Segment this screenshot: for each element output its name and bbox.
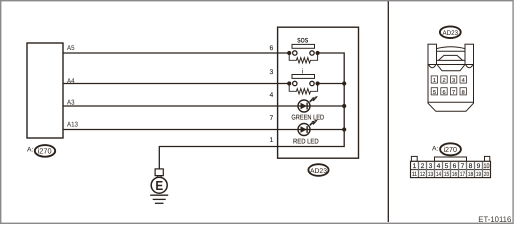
pin 7 — [450, 88, 456, 96]
green LED — [298, 96, 318, 112]
designator oval AD23 (under unit box) — [308, 164, 328, 176]
svg-text:14: 14 — [436, 171, 442, 178]
mounting tab left — [411, 156, 417, 161]
svg-text:i270: i270 — [38, 146, 52, 155]
wire ground to pin 1 — [159, 147, 277, 170]
svg-text:E: E — [155, 178, 163, 193]
internal bus wire — [278, 84, 345, 147]
cavity numbers row 2 — [412, 171, 490, 178]
svg-text:A13: A13 — [67, 122, 78, 129]
svg-text:8: 8 — [462, 90, 465, 96]
pin 4 — [460, 76, 466, 84]
svg-text:AD23: AD23 — [443, 30, 459, 37]
unit box AD23 — [278, 27, 359, 158]
connector block A (i270) — [27, 43, 63, 138]
svg-text:4: 4 — [462, 78, 465, 84]
designator oval AD23 (right panel) — [440, 26, 461, 38]
svg-text:3: 3 — [429, 163, 433, 170]
pushbutton SOS actuator bar — [292, 44, 315, 48]
svg-text:2: 2 — [421, 163, 425, 170]
panel divider line — [387, 1, 389, 222]
wire A3 to pin 4 — [63, 105, 344, 107]
junction dot i right — [316, 81, 320, 85]
svg-text:19: 19 — [476, 171, 482, 178]
resistor (parallel with SOS switch) — [289, 53, 317, 63]
svg-text:2: 2 — [442, 78, 445, 84]
wire A4 to pin 3 — [63, 83, 289, 85]
cavity numbers row 1 — [413, 163, 490, 170]
junction dot i left — [287, 81, 291, 85]
svg-text:9: 9 — [477, 163, 481, 170]
ground symbol E — [150, 176, 168, 204]
wire i to bus — [318, 83, 345, 85]
pin 3 — [450, 76, 456, 84]
svg-text:3: 3 — [452, 78, 455, 84]
svg-text:A:: A: — [27, 146, 34, 153]
svg-text:7: 7 — [452, 90, 455, 96]
red LED — [298, 120, 318, 136]
pin 1 — [431, 76, 437, 84]
svg-text:4: 4 — [270, 92, 274, 99]
svg-text:1: 1 — [433, 78, 436, 84]
wire A13 to pin 7 — [63, 129, 344, 131]
svg-text:7: 7 — [270, 115, 274, 122]
mounting tab right — [485, 156, 490, 161]
svg-text:i270: i270 — [443, 145, 457, 154]
junction dot SOS left — [287, 51, 291, 55]
svg-text:18: 18 — [468, 171, 474, 178]
svg-text:4: 4 — [437, 163, 441, 170]
pushbutton SOS contacts — [293, 51, 315, 55]
wire SOS to bus — [318, 53, 345, 84]
junction dot bus at green LED row — [342, 104, 346, 108]
svg-text:A:: A: — [432, 146, 439, 153]
svg-text:6: 6 — [453, 163, 457, 170]
svg-text:11: 11 — [412, 171, 418, 178]
junction dot SOS right — [316, 51, 320, 55]
mounting tab middle — [435, 157, 467, 161]
svg-text:8: 8 — [469, 163, 473, 170]
pushbutton i actuator bar — [292, 75, 315, 79]
svg-text:10: 10 — [484, 163, 490, 170]
designator oval i270 (right panel) — [440, 143, 461, 155]
pin 8 — [460, 88, 466, 96]
junction dot bus at red LED row — [342, 127, 346, 131]
svg-text:A5: A5 — [67, 45, 75, 52]
svg-text:1: 1 — [413, 163, 417, 170]
pushbutton i contacts — [293, 81, 315, 85]
svg-text:6: 6 — [442, 90, 445, 96]
svg-text:7: 7 — [461, 163, 465, 170]
pin 2 — [441, 76, 447, 84]
pin 5 — [431, 88, 437, 96]
svg-text:3: 3 — [270, 69, 274, 76]
svg-text:17: 17 — [460, 171, 466, 178]
svg-text:1: 1 — [270, 137, 274, 144]
svg-text:5: 5 — [433, 90, 436, 96]
svg-text:SOS: SOS — [297, 37, 309, 44]
svg-text:ET-10116: ET-10116 — [478, 215, 512, 224]
wire A5 to pin 6 — [63, 52, 289, 54]
svg-text:20: 20 — [484, 171, 490, 178]
svg-text:AD23: AD23 — [310, 168, 327, 175]
svg-text:12: 12 — [420, 171, 426, 178]
connector view AD23 (right panel) — [428, 44, 474, 111]
junction dot bus at i row — [342, 81, 346, 85]
resistor (parallel with i switch) — [289, 84, 317, 95]
svg-text:5: 5 — [445, 163, 449, 170]
svg-text:GREEN LED: GREEN LED — [291, 115, 324, 122]
svg-text:13: 13 — [428, 171, 434, 178]
svg-text:15: 15 — [444, 171, 450, 178]
svg-text:RED LED: RED LED — [293, 139, 319, 146]
svg-text:6: 6 — [270, 45, 274, 52]
ground terminal square — [155, 169, 163, 176]
connector body — [411, 161, 491, 177]
connector view i270 (right panel) — [411, 156, 491, 178]
pin 6 — [441, 88, 447, 96]
designator oval i270 (left) — [35, 145, 55, 157]
svg-text:16: 16 — [452, 171, 458, 178]
